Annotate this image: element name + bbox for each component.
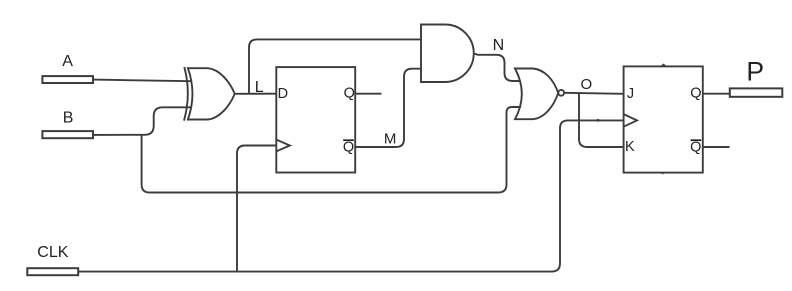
junction dot on JK clock wire xyxy=(597,119,600,122)
svg-text:Q: Q xyxy=(690,85,701,101)
nor gate U4 body xyxy=(515,69,558,120)
wire A to XOR top input xyxy=(94,80,192,82)
wire CLK branch to D flip-flop clock xyxy=(237,146,276,272)
pin Qbar overbar of D flip-flop xyxy=(343,139,354,141)
input terminal CLK xyxy=(27,268,78,275)
and gate U3 xyxy=(421,25,474,83)
input terminal A xyxy=(42,76,93,83)
JK flip-flop U5 bottom edge mark xyxy=(661,173,666,175)
wire B to XOR bottom input xyxy=(94,107,192,135)
input terminal B xyxy=(42,131,93,138)
svg-text:L: L xyxy=(255,79,264,96)
wire L node XOR output to D input xyxy=(235,93,277,95)
wire N node AND output to NOR top input xyxy=(474,54,521,82)
wire Q output of JK to terminal P xyxy=(703,93,730,95)
svg-text:A: A xyxy=(62,53,73,70)
svg-text:Q: Q xyxy=(344,85,355,101)
nor gate U4 output bubble xyxy=(558,90,564,96)
wire L riser to AND top input xyxy=(249,39,421,93)
wire Q output stub of D flip-flop xyxy=(355,93,381,95)
JK flip-flop U5 box xyxy=(624,66,703,172)
D flip-flop U2 clock triangle xyxy=(276,140,290,152)
svg-text:CLK: CLK xyxy=(37,244,68,261)
svg-text:P: P xyxy=(746,57,764,87)
svg-text:M: M xyxy=(384,131,397,148)
wire CLK main run to JK clock xyxy=(79,120,624,271)
output terminal P xyxy=(730,88,783,96)
JK flip-flop U5 top edge mark xyxy=(661,64,667,67)
wire Qbar stub of JK xyxy=(703,146,730,148)
JK flip-flop U5 clock triangle xyxy=(624,114,637,127)
wire O node NOR output to J input xyxy=(564,93,624,94)
svg-text:D: D xyxy=(278,86,288,102)
D flip-flop U2 box xyxy=(276,67,355,172)
svg-text:O: O xyxy=(581,76,593,93)
svg-text:N: N xyxy=(493,37,505,54)
wire B feedback to NOR bottom input xyxy=(142,107,521,193)
svg-text:K: K xyxy=(625,139,635,155)
svg-text:J: J xyxy=(627,86,634,102)
wire O feedback to K input xyxy=(579,93,624,147)
pin Qbar overbar of JK xyxy=(691,139,702,141)
svg-text:Q: Q xyxy=(690,140,701,156)
xor gate U1 body xyxy=(188,68,235,119)
xor gate U1 back arc xyxy=(184,67,188,121)
svg-text:B: B xyxy=(63,110,74,127)
wire M node Qbar of D flip-flop to AND bottom input xyxy=(355,69,421,147)
svg-text:Q: Q xyxy=(343,140,354,156)
